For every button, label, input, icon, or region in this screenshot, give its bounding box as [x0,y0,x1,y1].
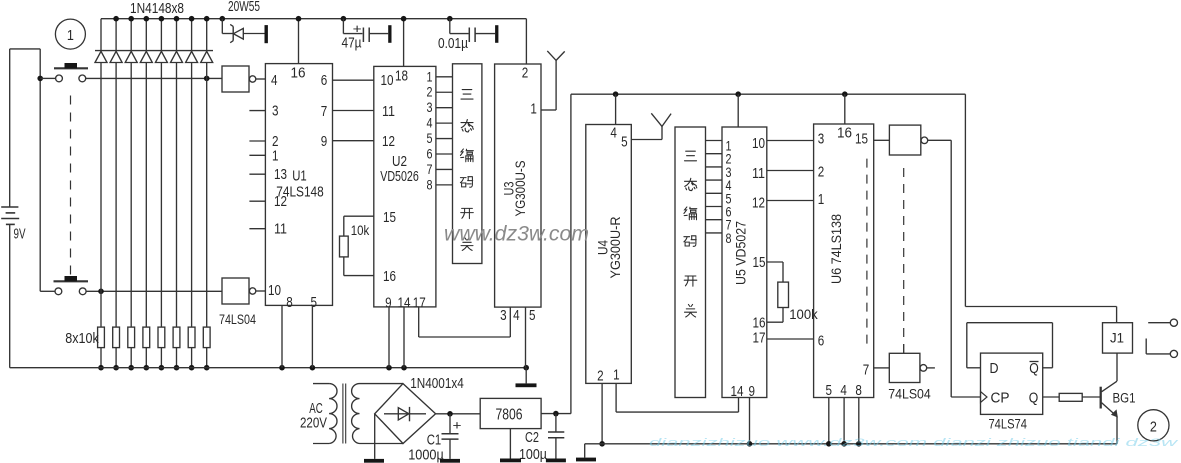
svg-text:U1: U1 [292,169,307,185]
svg-text:U6 74LS138: U6 74LS138 [828,214,844,284]
svg-text:1N4148x8: 1N4148x8 [130,1,184,17]
svg-text:1: 1 [272,148,279,164]
svg-text:D: D [990,361,999,377]
svg-text:16: 16 [291,66,306,82]
svg-text:1: 1 [613,368,620,384]
svg-text:220V: 220V [300,416,327,432]
svg-text:8x10k: 8x10k [65,331,99,347]
svg-text:3: 3 [272,104,279,120]
svg-text:5: 5 [826,383,833,399]
svg-text:10: 10 [752,136,765,152]
svg-text:1: 1 [427,69,433,84]
svg-text:CP: CP [991,391,1010,407]
svg-text:2: 2 [522,65,529,81]
svg-text:10: 10 [268,283,281,299]
svg-text:16: 16 [383,269,396,285]
svg-text:4: 4 [513,308,520,324]
svg-text:VD5026: VD5026 [380,169,419,185]
svg-text:2: 2 [427,85,433,100]
svg-text:20W55: 20W55 [228,0,260,15]
svg-text:6: 6 [321,73,328,89]
svg-text:47µ: 47µ [342,36,363,52]
svg-text:5: 5 [621,135,628,151]
svg-text:1000µ: 1000µ [408,447,444,463]
svg-text:+: + [453,417,462,432]
svg-text:11: 11 [382,104,395,120]
svg-text:1: 1 [67,27,74,44]
svg-text:2: 2 [597,369,604,385]
svg-text:15: 15 [383,210,396,226]
svg-text:YG300U-R: YG300U-R [607,217,623,279]
svg-text:3: 3 [427,100,433,115]
svg-text:6: 6 [818,334,825,350]
svg-text:2: 2 [1150,418,1157,435]
svg-text:1: 1 [818,192,825,208]
svg-text:12: 12 [752,196,765,212]
svg-text:3: 3 [500,308,507,324]
svg-text:3: 3 [818,132,825,148]
svg-text:17: 17 [753,331,766,347]
svg-text:16: 16 [837,126,852,142]
svg-text:8: 8 [855,383,862,399]
svg-text:1N4001x4: 1N4001x4 [410,376,464,392]
svg-text:4: 4 [840,383,847,399]
svg-text:74LS148: 74LS148 [276,185,324,201]
svg-text:9V: 9V [14,227,26,243]
svg-text:5: 5 [311,295,318,311]
svg-text:6: 6 [427,147,433,162]
svg-text:Q: Q [1029,391,1039,407]
svg-text:8: 8 [427,177,433,192]
svg-text:11: 11 [274,222,287,238]
svg-text:8: 8 [286,295,293,311]
svg-text:74LS04: 74LS04 [219,312,256,327]
svg-text:10k: 10k [351,223,370,238]
svg-text:10: 10 [381,73,394,89]
svg-text:7: 7 [863,363,870,379]
svg-text:5: 5 [427,131,433,146]
svg-text:7806: 7806 [496,407,523,424]
svg-text:74LS74: 74LS74 [988,416,1027,431]
svg-text:7: 7 [427,162,433,177]
svg-text:4: 4 [427,116,433,131]
svg-text:14: 14 [731,384,744,400]
svg-text:16: 16 [753,316,766,332]
svg-text:15: 15 [753,255,766,271]
svg-text:J1: J1 [1110,331,1124,346]
svg-text:U2: U2 [392,154,407,170]
svg-text:+: + [353,21,362,36]
svg-text:Q: Q [1029,361,1039,377]
svg-text:9: 9 [321,134,328,150]
svg-text:100µ: 100µ [519,446,547,463]
svg-text:11: 11 [752,166,765,182]
svg-text:dianzizhizuo www.dz3w.com dian: dianzizhizuo www.dz3w.com dianzi zhizuo … [649,437,1179,449]
svg-text:www.dz3w.com: www.dz3w.com [444,222,589,246]
svg-text:18: 18 [395,69,408,85]
svg-text:12: 12 [382,134,395,150]
svg-text:BG1: BG1 [1113,391,1136,406]
svg-text:74LS04: 74LS04 [888,387,931,402]
svg-text:YG300U-S: YG300U-S [512,161,528,217]
svg-text:U5 VD5027: U5 VD5027 [733,221,749,285]
svg-text:7: 7 [321,104,328,120]
svg-text:5: 5 [529,308,536,324]
svg-text:2: 2 [818,165,825,181]
svg-text:C2: C2 [525,429,539,446]
svg-text:13: 13 [274,167,287,183]
svg-text:15: 15 [855,132,868,148]
svg-text:8: 8 [726,231,732,246]
svg-text:4: 4 [610,126,617,142]
svg-text:4: 4 [271,73,278,89]
svg-text:1: 1 [530,102,537,118]
svg-text:0.01µ: 0.01µ [438,36,469,52]
